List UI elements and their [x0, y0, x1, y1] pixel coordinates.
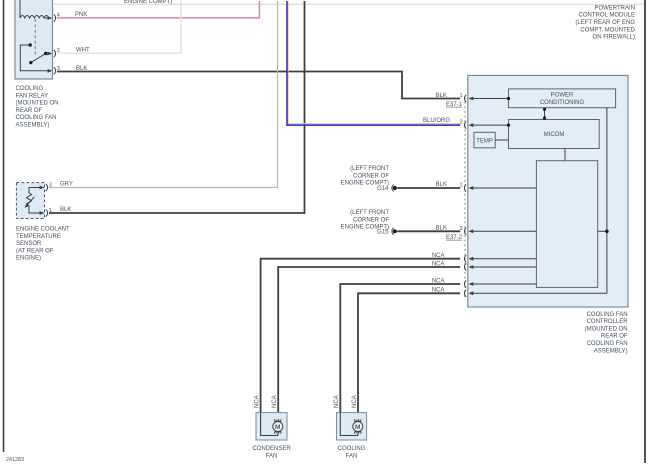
svg-text:BLK: BLK: [76, 66, 87, 72]
svg-text:G15: G15: [377, 229, 389, 235]
controller connector dashed line: [464, 97, 466, 298]
wire NCA 2 (controller to condenser fan motor): [278, 267, 460, 419]
link temp to micom: [495, 139, 508, 141]
output driver box U4: [536, 161, 597, 288]
wire BLK (sensor pin1 to top): [49, 1, 305, 213]
svg-text:REAR OF: REAR OF: [601, 334, 628, 340]
cooling fan internal wiring: [340, 413, 358, 436]
controller pin 1 (BLK from G14): [436, 182, 537, 191]
controller pin 1 (BLK, E37-1): [436, 93, 510, 108]
svg-text:FAN: FAN: [346, 453, 358, 459]
svg-text:ENGINE COMPT): ENGINE COMPT): [124, 0, 172, 5]
controller NCA pin d: [432, 288, 607, 297]
svg-text:REAR OF: REAR OF: [16, 108, 43, 114]
right bus (power cond. to NCA pin 8): [598, 108, 609, 294]
cooling fan motor M2: [353, 419, 363, 434]
svg-text:BLK: BLK: [60, 207, 71, 213]
relay switch movable contact: [29, 52, 47, 64]
svg-text:(LEFT FRONT: (LEFT FRONT: [350, 210, 389, 216]
controller NCA pin c: [432, 278, 537, 287]
svg-text:SENSOR: SENSOR: [16, 241, 42, 247]
svg-text:FAN RELAY: FAN RELAY: [16, 93, 49, 99]
svg-text:(AT REAR OF: (AT REAR OF: [16, 248, 54, 254]
svg-text:FAN: FAN: [266, 453, 278, 459]
svg-text:CONTROLLER: CONTROLLER: [587, 319, 629, 325]
svg-text:M: M: [355, 424, 361, 431]
sensor pin 1: [40, 208, 52, 217]
controller NCA pin b: [432, 261, 537, 270]
svg-text:ENGINE): ENGINE): [16, 256, 41, 262]
condenser fan motor M1: [273, 419, 283, 434]
diagram id 241283: [6, 457, 24, 463]
svg-text:(LEFT REAR OF ENG: (LEFT REAR OF ENG: [575, 20, 635, 26]
cut-off label fragment (ENGINE COMPT): [124, 0, 172, 5]
svg-text:241283: 241283: [6, 457, 24, 463]
svg-text:(MOUNTED ON: (MOUNTED ON: [585, 326, 628, 332]
cooling fan label: [338, 446, 366, 459]
svg-text:2: 2: [459, 120, 462, 126]
link micom to output driver: [564, 149, 566, 161]
svg-text:G14: G14: [377, 186, 389, 192]
svg-text:(LEFT FRONT: (LEFT FRONT: [350, 166, 389, 172]
condenser fan label: [252, 446, 291, 459]
controller pin 2 (BLU/ORG): [459, 120, 510, 129]
ground G14: [341, 166, 461, 192]
wire NCA 4 (controller to cooling fan motor): [358, 293, 460, 419]
relay switch common lead: [20, 43, 48, 71]
svg-text:COOLING FAN: COOLING FAN: [16, 115, 57, 121]
relay pin 3: [48, 66, 60, 74]
svg-text:COMPT, MOUNTED: COMPT, MOUNTED: [580, 27, 635, 33]
condenser fan internal wiring: [261, 413, 278, 436]
svg-text:CORNER OF: CORNER OF: [353, 218, 389, 224]
cooling fan controller box: [468, 75, 628, 307]
page left border: [3, 0, 5, 452]
wire BLK (relay pin3 to controller pin1): [57, 66, 460, 99]
svg-text:NCA: NCA: [352, 395, 358, 408]
svg-text:ASSEMBLY): ASSEMBLY): [16, 123, 50, 129]
cooling fan relay box: [15, 0, 53, 79]
condenser fan box: [256, 413, 287, 440]
relay pin 2: [46, 48, 60, 57]
thermistor arrow: [24, 197, 34, 208]
svg-text:GRY: GRY: [60, 182, 73, 188]
svg-text:CORNER OF: CORNER OF: [353, 174, 389, 180]
relay pin 4: [45, 13, 60, 22]
svg-text:CONDENSER: CONDENSER: [252, 446, 291, 452]
wire PNK (relay pin4 to top): [57, 1, 259, 18]
NCA label (vertical, wire 1): [255, 395, 261, 408]
NCA label (vertical, wire 2): [272, 395, 278, 408]
svg-text:COOLING FAN: COOLING FAN: [587, 312, 628, 318]
relay coil: [20, 16, 49, 19]
thermistor leads: [29, 188, 44, 214]
svg-text:ENGINE COOLANT: ENGINE COOLANT: [16, 227, 70, 233]
micom box U2: [509, 120, 600, 149]
svg-text:PNK: PNK: [75, 12, 87, 18]
powertrain control module label: [575, 5, 635, 40]
wire NCA 1 (controller to condenser fan): [261, 259, 461, 413]
cooling fan box: [337, 413, 367, 440]
svg-text:E37-1: E37-1: [446, 102, 463, 108]
cooling fan relay label: [16, 86, 59, 129]
svg-text:E37-2: E37-2: [446, 235, 463, 241]
svg-text:NCA: NCA: [334, 395, 340, 408]
svg-text:(MOUNTED ON: (MOUNTED ON: [16, 101, 59, 107]
svg-text:ASSEMBLY): ASSEMBLY): [594, 348, 628, 354]
svg-text:POWERTRAIN: POWERTRAIN: [594, 5, 635, 11]
controller pin 3 (BLK from G15, E37-2): [436, 226, 537, 241]
cooling fan controller label: [585, 312, 629, 355]
svg-text:MICOM: MICOM: [544, 132, 565, 138]
svg-text:COOLING: COOLING: [16, 86, 44, 92]
svg-text:COOLING: COOLING: [338, 446, 366, 452]
power conditioning box U1: [509, 89, 616, 108]
ground G15: [341, 210, 461, 235]
relay coil-switch dashed link: [34, 19, 36, 55]
relay coil lead (to top, cut off): [19, 0, 21, 18]
svg-text:NCA: NCA: [272, 395, 278, 408]
svg-text:POWER: POWER: [551, 93, 574, 99]
thermistor element: [26, 193, 31, 208]
wire BLU/ORG (top to controller pin2): [287, 1, 460, 125]
svg-text:CONTROL MODULE: CONTROL MODULE: [579, 13, 635, 19]
svg-text:TEMP: TEMP: [476, 138, 493, 144]
svg-text:COOLING FAN: COOLING FAN: [587, 341, 628, 347]
svg-text:BLU/ORG: BLU/ORG: [423, 118, 450, 124]
link power conditioning to micom: [543, 108, 546, 120]
NCA label (vertical, wire 4): [352, 395, 358, 408]
svg-text:WHT: WHT: [76, 47, 90, 53]
wire WHT (relay pin2 up and over): [57, 1, 181, 54]
svg-text:NCA: NCA: [255, 395, 261, 408]
NCA label (vertical, wire 3): [334, 395, 340, 408]
svg-text:M: M: [275, 424, 281, 431]
wire NCA 3 (controller to cooling fan): [340, 284, 460, 413]
svg-text:ON FIREWALL): ON FIREWALL): [593, 35, 635, 41]
svg-text:BLK: BLK: [436, 93, 447, 99]
cut-off component bottom edge (top of page): [53, 3, 644, 5]
svg-text:1: 1: [459, 93, 462, 99]
wire GRY (sensor pin3 to top): [49, 1, 278, 188]
engine coolant temperature sensor box: [16, 183, 44, 219]
sensor pin 3: [40, 182, 52, 191]
svg-text:CONDITIONING: CONDITIONING: [540, 100, 585, 106]
temp box U3: [474, 132, 495, 148]
controller NCA pin a: [432, 253, 537, 262]
engine coolant temperature sensor label: [16, 227, 70, 262]
svg-text:TEMPERATURE: TEMPERATURE: [16, 234, 61, 240]
page right border: [644, 0, 646, 463]
